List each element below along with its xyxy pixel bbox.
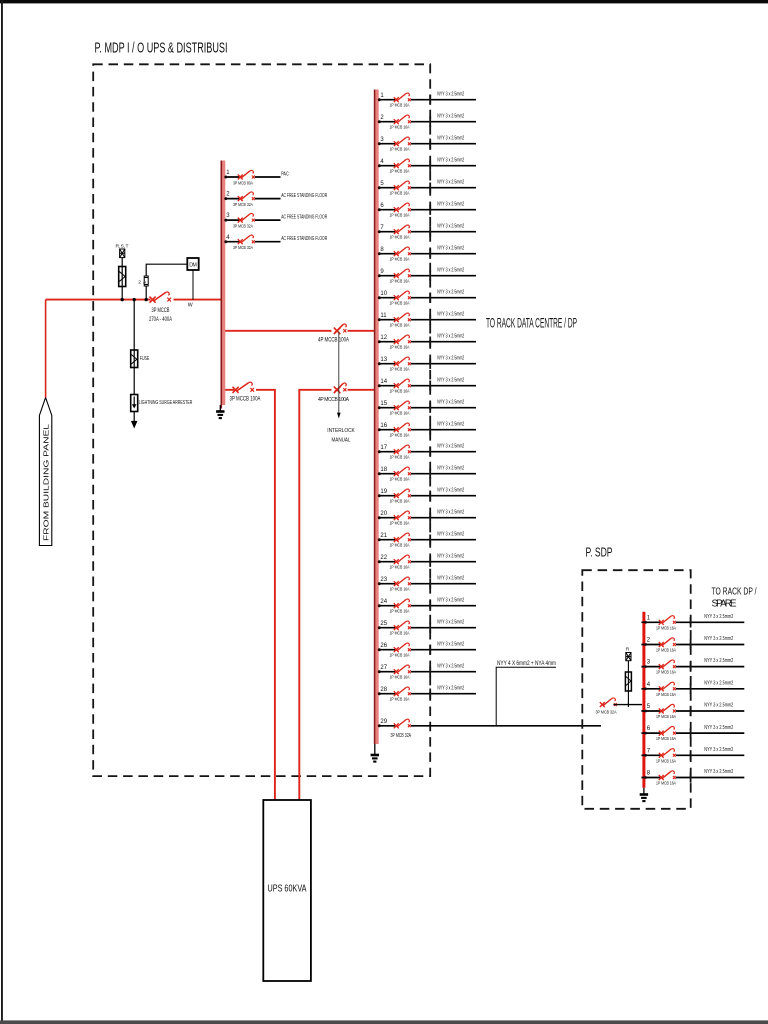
- wire: incoming feeder horizontal (red) to main busbar: [46, 299, 224, 301]
- svg-text:5: 5: [380, 181, 384, 187]
- wire: DP circuit 18 conductor: [379, 473, 476, 475]
- wire: SDP boundary tick on circuit 2: [690, 639, 692, 649]
- wire: SDP boundary tick on circuit 3: [690, 661, 692, 671]
- breaker: SDP circuit 5 1P MCB 16A: [659, 704, 676, 713]
- wire: DP circuit 16 conductor: [379, 429, 476, 431]
- wire: MDP panel dashed boundary box: [93, 64, 430, 776]
- wire: SDP boundary tick on circuit 8: [690, 772, 692, 782]
- svg-text:3P MCB 32A: 3P MCB 32A: [233, 245, 254, 251]
- svg-text:TO RACK DATA CENTRE / DP: TO RACK DATA CENTRE / DP: [486, 316, 577, 331]
- node: busbar B3 (SDP bus, vertical red): [642, 612, 645, 788]
- wire: DP circuit 25 conductor: [379, 627, 476, 629]
- svg-text:NYY 3 x 2.5mm2: NYY 3 x 2.5mm2: [437, 245, 464, 251]
- svg-text:1P MCB 16A: 1P MCB 16A: [390, 410, 411, 416]
- breaker: DP circuit 20 1P MCB 16A: [394, 511, 411, 520]
- svg-text:1P MCB 16A: 1P MCB 16A: [656, 781, 677, 787]
- svg-text:NYY 3 x 2.5mm2: NYY 3 x 2.5mm2: [437, 685, 464, 691]
- svg-text:4: 4: [226, 235, 230, 241]
- svg-text:1P MCB 16A: 1P MCB 16A: [390, 234, 411, 240]
- wire: boundary tick on circuit 4: [429, 161, 431, 171]
- svg-text:TO RACK DP /: TO RACK DP /: [712, 587, 757, 598]
- wire: SDP circuit 5 conductor: [641, 710, 744, 712]
- svg-text:4: 4: [647, 682, 651, 688]
- svg-text:NYY 3 x 2.5mm2: NYY 3 x 2.5mm2: [437, 157, 464, 163]
- wire: boundary tick on circuit 24: [429, 601, 431, 611]
- svg-text:FUSE: FUSE: [140, 356, 150, 362]
- breaker: DP circuit 3 1P MCB 16A: [394, 137, 411, 146]
- svg-text:3: 3: [226, 213, 230, 219]
- wire: DP circuit 15 conductor: [379, 407, 476, 409]
- svg-text:24: 24: [380, 599, 387, 605]
- node: DP circuit 29 busbar terminal: [378, 724, 381, 727]
- svg-text:1P MCB 16A: 1P MCB 16A: [656, 648, 677, 654]
- svg-text:1P MCB 16A: 1P MCB 16A: [390, 344, 411, 350]
- svg-text:3P MCB 32A: 3P MCB 32A: [233, 202, 254, 208]
- node: DP circuit 4 busbar terminal: [378, 164, 381, 167]
- wire: SDP panel dashed boundary box: [582, 570, 690, 809]
- svg-text:23: 23: [380, 577, 387, 583]
- wire: DP circuit 5 conductor: [379, 187, 476, 189]
- svg-text:7: 7: [647, 748, 651, 754]
- svg-text:12: 12: [380, 335, 387, 341]
- breaker CB4: SDP incoming 3P MCB 32A: [600, 698, 617, 707]
- meter DM box: [187, 258, 198, 270]
- svg-text:NYY 3 x 2.5mm2: NYY 3 x 2.5mm2: [437, 421, 464, 427]
- wire: DP circuit 29 feeder conductor to SDP: [379, 725, 601, 727]
- svg-text:AC FREE STANDING FLOOR: AC FREE STANDING FLOOR: [281, 193, 327, 199]
- wire: DP circuit 27 conductor: [379, 671, 476, 673]
- svg-text:15: 15: [380, 401, 387, 407]
- svg-text:1P MCB 16A: 1P MCB 16A: [390, 696, 411, 702]
- svg-text:SPARE: SPARE: [712, 599, 737, 610]
- svg-text:1P MCB 16A: 1P MCB 16A: [390, 674, 411, 680]
- node: DP circuit 23 busbar terminal: [378, 582, 381, 585]
- node: DP circuit 20 busbar terminal: [378, 516, 381, 519]
- breaker: AC circuit 3 3P MCB 32A: [238, 213, 255, 222]
- wire: DP circuit 4 conductor: [379, 165, 476, 167]
- svg-text:1P MCB 16A: 1P MCB 16A: [656, 714, 677, 720]
- node: DP circuit 12 busbar terminal: [378, 340, 381, 343]
- svg-text:6: 6: [380, 203, 384, 209]
- node: DP circuit 17 busbar terminal: [378, 450, 381, 453]
- svg-text:14: 14: [380, 379, 387, 385]
- svg-text:NYY 3 x 2.5mm2: NYY 3 x 2.5mm2: [704, 725, 733, 731]
- svg-text:NYY 3 x 2.5mm2: NYY 3 x 2.5mm2: [704, 680, 733, 686]
- svg-text:1P MCB 16A: 1P MCB 16A: [656, 736, 677, 742]
- node: DP circuit 14 busbar terminal: [378, 384, 381, 387]
- svg-text:NYY 3 x 2.5mm2: NYY 3 x 2.5mm2: [437, 619, 464, 625]
- svg-text:NYY 3 x 2.5mm2: NYY 3 x 2.5mm2: [437, 443, 464, 449]
- svg-text:NYY 3 x 2.5mm2: NYY 3 x 2.5mm2: [437, 641, 464, 647]
- breaker: DP circuit 15 1P MCB 16A: [394, 401, 411, 410]
- node: junction tick on SDP incoming line: [627, 702, 629, 707]
- wire: metering branch conductor: [121, 258, 123, 300]
- svg-text:8: 8: [380, 247, 384, 253]
- breaker CB2: 3P MCCB 100A UPS input: [233, 382, 255, 393]
- wire: boundary tick on circuit 21: [429, 535, 431, 545]
- node: DP circuit 25 busbar terminal: [378, 626, 381, 629]
- node: busbar B2 (distribution bus, vertical): [375, 90, 379, 745]
- svg-text:19: 19: [380, 489, 387, 495]
- wire: SDP circuit 3 conductor: [641, 666, 744, 668]
- svg-text:2: 2: [226, 192, 230, 198]
- wire: SDP circuit 4 conductor: [641, 688, 744, 690]
- surge arrester LA1 (LIGHTNING SURGE ARRESTER): [131, 395, 138, 412]
- svg-text:9: 9: [380, 269, 384, 275]
- wire: SDP circuit 1 conductor: [641, 621, 744, 623]
- node: DP circuit 13 busbar terminal: [378, 362, 381, 365]
- node: DP circuit 8 busbar terminal: [378, 252, 381, 255]
- svg-text:28: 28: [380, 687, 387, 693]
- svg-text:4P MCCB 100A: 4P MCCB 100A: [318, 397, 350, 403]
- wire: boundary tick on circuit 12: [429, 337, 431, 347]
- svg-text:NYY 3 x 2.5mm2: NYY 3 x 2.5mm2: [437, 553, 464, 559]
- breaker: SDP circuit 7 1P MCB 16A: [659, 749, 676, 758]
- ground: busbar B1 earth: [216, 405, 224, 418]
- wire: arrester earth arrow: [131, 421, 138, 429]
- svg-text:2: 2: [647, 638, 651, 644]
- wire: boundary tick on circuit 15: [429, 403, 431, 413]
- svg-text:R: R: [626, 647, 630, 653]
- svg-text:2: 2: [380, 115, 384, 121]
- svg-text:NYY 3 x 2.5mm2: NYY 3 x 2.5mm2: [437, 267, 464, 273]
- svg-text:NYY 3 x 2.5mm2: NYY 3 x 2.5mm2: [704, 614, 733, 620]
- wire: SDP circuit 6 conductor: [641, 732, 744, 734]
- wire: DP circuit 11 conductor: [379, 319, 476, 321]
- wire: DP circuit 2 conductor: [379, 121, 476, 123]
- wire: DM meter drop conductor to feeder (W point): [192, 270, 194, 300]
- svg-text:NYY 3 x 2.5mm2: NYY 3 x 2.5mm2: [704, 769, 733, 775]
- svg-text:NYY 3 x 2.5mm2: NYY 3 x 2.5mm2: [437, 223, 464, 229]
- breaker CB0: 3P MCCB 270A-400A main incomer: [150, 292, 172, 303]
- breaker: SDP circuit 3 1P MCB 16A: [659, 660, 676, 669]
- wire: boundary tick on circuit 10: [429, 293, 431, 303]
- wire: boundary tick on circuit 18: [429, 469, 431, 479]
- svg-text:21: 21: [380, 533, 387, 539]
- wire: SDP boundary tick on circuit 6: [690, 728, 692, 739]
- svg-text:1P MCB 16A: 1P MCB 16A: [390, 366, 411, 372]
- svg-text:1P MCB 16A: 1P MCB 16A: [390, 498, 411, 504]
- node: FROM BUILDING PANEL source flag: [39, 398, 51, 546]
- svg-text:1P MCB 16A: 1P MCB 16A: [390, 564, 411, 570]
- node: SDP circuit 8 busbar terminal: [644, 776, 647, 779]
- wire: UPS feeder (red) from B1 with riser down to UPS: [225, 390, 275, 800]
- svg-text:NYY 3 x 2.5mm2: NYY 3 x 2.5mm2: [704, 703, 733, 709]
- svg-text:13: 13: [380, 357, 387, 363]
- wire: boundary tick on circuit 27: [429, 667, 431, 677]
- breaker: DP circuit 6 1P MCB 16A: [394, 203, 411, 212]
- wire: boundary tick on circuit 6: [429, 205, 431, 215]
- svg-text:DM: DM: [189, 263, 197, 269]
- svg-text:1P MCB 16A: 1P MCB 16A: [390, 542, 411, 548]
- svg-text:NYY 3 x 2.5mm2: NYY 3 x 2.5mm2: [437, 201, 464, 207]
- breaker: DP circuit 26 1P MCB 16A: [394, 643, 411, 652]
- node: AC circuit 1 busbar terminal: [224, 176, 227, 179]
- svg-text:NYY 3 x 2.5mm2: NYY 3 x 2.5mm2: [704, 636, 733, 642]
- breaker: DP circuit 11 1P MCB 16A: [394, 313, 411, 322]
- svg-text:8: 8: [647, 771, 651, 777]
- wire: incoming feeder riser (red) from building panel flag: [45, 300, 47, 398]
- wire: DP circuit 24 conductor: [379, 605, 476, 607]
- svg-text:INTERLOCK: INTERLOCK: [327, 428, 355, 434]
- wire: interlock mechanical linkage line with arrow: [337, 332, 341, 419]
- wire: SDP circuit 8 conductor: [641, 777, 744, 779]
- wire: boundary tick on circuit 25: [429, 623, 431, 633]
- node: SDP circuit 4 busbar terminal: [644, 687, 647, 690]
- svg-text:3P MCCB: 3P MCCB: [152, 307, 170, 314]
- wire: boundary tick on circuit 28: [429, 689, 431, 699]
- node: DP circuit 15 busbar terminal: [378, 406, 381, 409]
- breaker: SDP circuit 4 1P MCB 16A: [659, 682, 676, 691]
- svg-text:1P MCB 16A: 1P MCB 16A: [390, 432, 411, 438]
- wire: boundary tick on circuit 11: [429, 315, 431, 325]
- fuse F3 2A control fuse: [144, 276, 148, 286]
- wire: DP circuit 13 conductor: [379, 363, 476, 365]
- svg-text:NYY 3 x 2.5mm2: NYY 3 x 2.5mm2: [437, 311, 464, 317]
- svg-text:NYY 3 x 2.5mm2: NYY 3 x 2.5mm2: [437, 113, 464, 119]
- svg-text:PAC: PAC: [281, 171, 289, 177]
- svg-text:NYY 3 x 2.5mm2: NYY 3 x 2.5mm2: [437, 289, 464, 295]
- node: busbar B1 (MDP main bus, vertical): [221, 161, 225, 409]
- breaker: SDP circuit 6 1P MCB 16A: [659, 726, 676, 735]
- breaker: DP circuit 18 1P MCB 16A: [394, 467, 411, 476]
- svg-text:3: 3: [380, 137, 384, 143]
- wire: SDP metering branch conductor: [627, 661, 629, 705]
- svg-text:1P MCB 16A: 1P MCB 16A: [390, 102, 411, 108]
- node: DP circuit 19 busbar terminal: [378, 494, 381, 497]
- svg-text:2A: 2A: [138, 280, 147, 286]
- breaker: DP circuit 5 1P MCB 16A: [394, 181, 411, 190]
- node: DP circuit 22 busbar terminal: [378, 560, 381, 563]
- svg-text:5: 5: [647, 704, 651, 710]
- svg-text:1P MCB 16A: 1P MCB 16A: [390, 322, 411, 328]
- wire: DP circuit 23 conductor: [379, 583, 476, 585]
- wire: boundary tick on circuit 1: [429, 95, 431, 105]
- svg-text:1P MCB 16A: 1P MCB 16A: [390, 212, 411, 218]
- svg-text:1P MCB 16A: 1P MCB 16A: [390, 520, 411, 526]
- svg-text:MANUAL: MANUAL: [332, 438, 352, 444]
- wire: SDP incoming conductor to busbar B3: [614, 704, 643, 706]
- node: DP circuit 26 busbar terminal: [378, 648, 381, 651]
- wire: AC circuit 3 conductor: [225, 219, 280, 221]
- svg-text:1: 1: [380, 93, 384, 99]
- svg-text:4P MCCB 100A: 4P MCCB 100A: [318, 337, 350, 344]
- svg-text:NYY 3 x 2.5mm2: NYY 3 x 2.5mm2: [437, 135, 464, 141]
- wire: boundary tick on circuit 16: [429, 425, 431, 435]
- node: DP circuit 28 busbar terminal: [378, 692, 381, 695]
- node: DP circuit 2 busbar terminal: [378, 120, 381, 123]
- node: DP circuit 7 busbar terminal: [378, 230, 381, 233]
- svg-text:AC FREE STANDING FLOOR: AC FREE STANDING FLOOR: [281, 215, 327, 221]
- svg-text:P. SDP: P. SDP: [586, 545, 613, 560]
- breaker: DP circuit 25 1P MCB 16A: [394, 621, 411, 630]
- breaker: DP circuit 22 1P MCB 16A: [394, 555, 411, 564]
- node: DP circuit 18 busbar terminal: [378, 472, 381, 475]
- component: UPS 60KVA unit box: [263, 800, 311, 981]
- svg-text:25: 25: [380, 621, 387, 627]
- wire: page top border bar: [0, 0, 768, 3]
- breaker: DP circuit 16 1P MCB 16A: [394, 423, 411, 432]
- breaker: SDP circuit 2 1P MCB 16A: [659, 638, 676, 647]
- svg-text:10: 10: [380, 291, 387, 297]
- breaker: DP circuit 7 1P MCB 16A: [394, 225, 411, 234]
- svg-text:NYY 3 x 2.5mm2: NYY 3 x 2.5mm2: [704, 747, 733, 753]
- node: DP circuit 6 busbar terminal: [378, 208, 381, 211]
- svg-text:1P MCB 16A: 1P MCB 16A: [656, 625, 677, 631]
- wire: boundary tick on circuit 7: [429, 227, 431, 237]
- wire: DP circuit 7 conductor: [379, 231, 476, 233]
- node: DP circuit 11 busbar terminal: [378, 318, 381, 321]
- svg-text:26: 26: [380, 643, 387, 649]
- svg-text:1P MCB 16A: 1P MCB 16A: [390, 454, 411, 460]
- svg-text:UPS 60KVA: UPS 60KVA: [268, 884, 307, 895]
- svg-text:16: 16: [380, 423, 387, 429]
- svg-text:18: 18: [380, 467, 387, 473]
- wire: DP circuit 20 conductor: [379, 517, 476, 519]
- svg-text:29: 29: [380, 719, 387, 725]
- wire: boundary tick on circuit 9: [429, 271, 431, 281]
- breaker: DP circuit 28 1P MCB 16A: [394, 687, 411, 696]
- breaker: DP circuit 2 1P MCB 16A: [394, 115, 411, 124]
- fuse F4 on SDP metering branch: [625, 672, 631, 691]
- svg-text:W: W: [188, 303, 193, 309]
- breaker: DP circuit 14 1P MCB 16A: [394, 379, 411, 388]
- svg-text:3P MCB 32A: 3P MCB 32A: [233, 224, 254, 230]
- breaker: DP circuit 29 3P MCB 32A: [394, 719, 411, 728]
- breaker: AC circuit 1 3P MCB 80A: [238, 170, 255, 179]
- wire: DP circuit 12 conductor: [379, 341, 476, 343]
- node: DP circuit 27 busbar terminal: [378, 670, 381, 673]
- wire: arrester branch conductor: [133, 300, 135, 422]
- ground: busbar B2 earth: [371, 744, 379, 762]
- node: AC circuit 4 busbar terminal: [224, 240, 227, 243]
- svg-text:20: 20: [380, 511, 387, 517]
- wire: AC circuit 4 conductor: [225, 241, 280, 243]
- svg-text:1P MCB 16A: 1P MCB 16A: [390, 278, 411, 284]
- svg-text:3P MCB 80A: 3P MCB 80A: [233, 181, 254, 187]
- node: SDP circuit 2 busbar terminal: [644, 643, 647, 646]
- wire: boundary tick on circuit 22: [429, 557, 431, 567]
- svg-text:NYY 3 x 2.5mm2: NYY 3 x 2.5mm2: [437, 597, 464, 603]
- wire: DP circuit 26 conductor: [379, 649, 476, 651]
- wire: AC circuit 1 conductor: [225, 176, 280, 178]
- breaker: DP circuit 19 1P MCB 16A: [394, 489, 411, 498]
- wire: DP circuit 6 conductor: [379, 209, 476, 211]
- node: DP circuit 24 busbar terminal: [378, 604, 381, 607]
- wire: DP circuit 21 conductor: [379, 539, 476, 541]
- wire: SDP boundary tick on circuit 1: [690, 617, 692, 627]
- svg-text:1P MCB 16A: 1P MCB 16A: [390, 256, 411, 262]
- wire: boundary tick on circuit 2: [429, 117, 431, 127]
- svg-text:1P MCB 16A: 1P MCB 16A: [390, 300, 411, 306]
- svg-text:11: 11: [380, 313, 387, 319]
- svg-text:1: 1: [226, 170, 230, 176]
- wire: DP circuit 10 conductor: [379, 297, 476, 299]
- wire: DP circuit 19 conductor: [379, 495, 476, 497]
- wire: DP circuit 17 conductor: [379, 451, 476, 453]
- svg-text:3P MCB 32A: 3P MCB 32A: [391, 733, 412, 739]
- svg-text:NYY 3 x 2.5mm2: NYY 3 x 2.5mm2: [437, 91, 464, 97]
- svg-text:1P MCB 16A: 1P MCB 16A: [390, 388, 411, 394]
- node: DP circuit 5 busbar terminal: [378, 186, 381, 189]
- svg-text:1P MCB 16A: 1P MCB 16A: [390, 630, 411, 636]
- wire: boundary tick on circuit 14: [429, 381, 431, 391]
- wire: SDP circuit 2 conductor: [641, 644, 744, 646]
- svg-text:270A - 400A: 270A - 400A: [149, 316, 173, 323]
- svg-text:1P MCB 16A: 1P MCB 16A: [390, 586, 411, 592]
- transformer CT symbol on SDP metering branch: [626, 653, 631, 661]
- breaker: AC circuit 4 3P MCB 32A: [238, 235, 255, 244]
- breaker: DP circuit 27 1P MCB 16A: [394, 665, 411, 674]
- wire: bus tie feeder (red) B1 to B2 upper: [225, 330, 374, 332]
- wire: AC circuit 2 conductor: [225, 198, 280, 200]
- wire: boundary tick on circuit 17: [429, 447, 431, 457]
- wire: page left border line: [1, 0, 3, 1024]
- svg-text:NYY 3 x 2.5mm2: NYY 3 x 2.5mm2: [437, 333, 464, 339]
- node: DP circuit 1 busbar terminal: [378, 98, 381, 101]
- wire: DP circuit 8 conductor: [379, 253, 476, 255]
- svg-text:NYY 3 x 2.5mm2: NYY 3 x 2.5mm2: [437, 487, 464, 493]
- svg-text:NYY 3 x 2.5mm2: NYY 3 x 2.5mm2: [437, 399, 464, 405]
- wire: SDP circuit 7 conductor: [641, 754, 744, 756]
- svg-text:3P MCCB 100A: 3P MCCB 100A: [230, 396, 262, 403]
- node: DP circuit 10 busbar terminal: [378, 296, 381, 299]
- wire: boundary tick on circuit 23: [429, 579, 431, 589]
- breaker: DP circuit 17 1P MCB 16A: [394, 445, 411, 454]
- wire: boundary tick on circuit 19: [429, 491, 431, 501]
- svg-text:NYY 3 x 2.5mm2: NYY 3 x 2.5mm2: [437, 509, 464, 515]
- node: DP circuit 21 busbar terminal: [378, 538, 381, 541]
- breaker: DP circuit 21 1P MCB 16A: [394, 533, 411, 542]
- node: junction of DM metering branch on feeder: [145, 298, 148, 301]
- svg-text:NYY 3 x 2.5mm2: NYY 3 x 2.5mm2: [437, 663, 464, 669]
- breaker: DP circuit 23 1P MCB 16A: [394, 577, 411, 586]
- svg-text:6: 6: [647, 726, 651, 732]
- svg-text:FROM BUILDING PANEL: FROM BUILDING PANEL: [41, 424, 50, 541]
- breaker: DP circuit 10 1P MCB 16A: [394, 291, 411, 300]
- node: NYY 4 X 6mm2 + NYA 4mm cable label with leader: [496, 660, 556, 726]
- svg-text:1: 1: [647, 615, 651, 621]
- wire: SDP boundary tick on circuit 5: [690, 706, 692, 716]
- svg-text:NYY 3 x 2.5mm2: NYY 3 x 2.5mm2: [437, 465, 464, 471]
- svg-text:27: 27: [380, 665, 387, 671]
- svg-text:NYY 3 x 2.5mm2: NYY 3 x 2.5mm2: [704, 658, 733, 664]
- node: junction of metering branch on feeder: [121, 298, 124, 301]
- svg-text:LIGHTNING SURGE ARRESTER: LIGHTNING SURGE ARRESTER: [139, 400, 193, 406]
- breaker: DP circuit 9 1P MCB 16A: [394, 269, 411, 278]
- svg-text:1P MCB 16A: 1P MCB 16A: [390, 124, 411, 130]
- svg-text:4: 4: [380, 159, 384, 165]
- fuse F2 (FUSE): [131, 350, 138, 368]
- node: junction of arrester branch on feeder: [133, 298, 136, 301]
- svg-text:3: 3: [647, 660, 651, 666]
- breaker: DP circuit 24 1P MCB 16A: [394, 599, 411, 608]
- breaker CB1: 4P MCCB 100A upper tie: [334, 324, 347, 334]
- svg-text:3P MCB 32A: 3P MCB 32A: [596, 710, 618, 716]
- wire: DP circuit 3 conductor: [379, 143, 476, 145]
- breaker: DP circuit 1 1P MCB 16A: [394, 93, 411, 102]
- node: DP circuit 16 busbar terminal: [378, 428, 381, 431]
- fuse F1 on metering branch: [119, 267, 126, 287]
- svg-text:7: 7: [380, 225, 384, 231]
- wire: DP circuit 28 conductor: [379, 693, 476, 695]
- wire: boundary tick on circuit 3: [429, 139, 431, 149]
- svg-text:1P MCB 16A: 1P MCB 16A: [656, 670, 677, 676]
- wire: boundary tick on circuit 26: [429, 645, 431, 655]
- node: DP circuit 3 busbar terminal: [378, 142, 381, 145]
- wire: boundary tick on circuit 5: [429, 183, 431, 193]
- node: SDP circuit 6 busbar terminal: [644, 732, 647, 735]
